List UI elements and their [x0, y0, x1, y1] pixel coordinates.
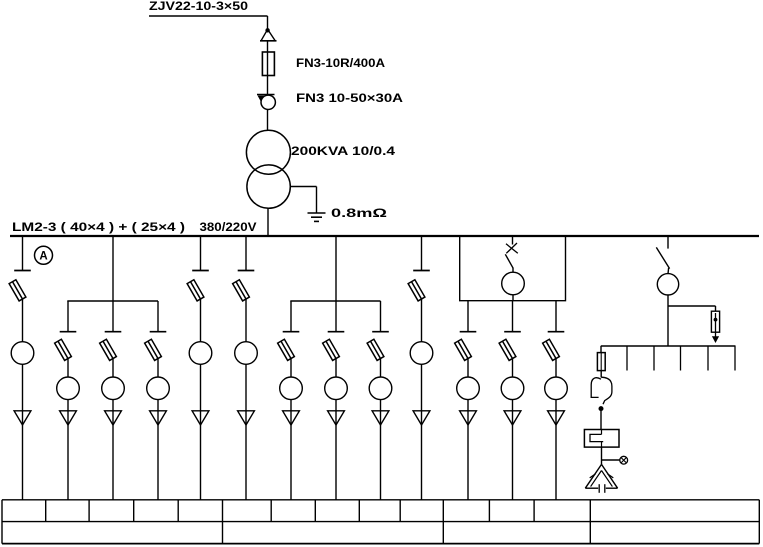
wire fuse to cutout [267, 76, 269, 95]
kWh meter feeder 5 [189, 342, 212, 365]
wire branch 12 meter to arrow [512, 400, 514, 411]
outgoing arrow circuit 13 [548, 411, 565, 425]
wire circuit 7 to panel table [290, 411, 292, 500]
wire feeder 6 fuse to meter [245, 299, 247, 342]
switch contact branch 13 [548, 331, 565, 333]
wire branch 4 fuse to meter [157, 359, 159, 378]
wire subgroup 1 feed from busbar [112, 237, 114, 301]
svg-text:FN3-10R/400A: FN3-10R/400A [296, 56, 385, 70]
wire branch 2 meter to arrow [67, 400, 69, 411]
switch contact feeder 6 [238, 270, 255, 272]
svg-text:LM2-3 ( 40×4 ) + ( 25×4 ): LM2-3 ( 40×4 ) + ( 25×4 ) [12, 220, 185, 234]
wire circuit 2 to panel table [67, 411, 69, 500]
fuse street-light circuit [597, 353, 605, 371]
wire feeder 1 stub from busbar [22, 237, 24, 271]
wire transformer to busbar [267, 208, 269, 235]
fuse-switch feeder 6 [233, 280, 250, 301]
antenna earth triangle [585, 464, 617, 492]
drop-out fuse cutout FN3 [257, 95, 275, 110]
wire feeder 6 stub from busbar [245, 237, 247, 271]
fuse-switch branch 12 [499, 339, 516, 360]
wire branch 7 stub from rail [290, 301, 292, 332]
comb outgoing tooth 2 [653, 346, 655, 371]
wire branch 13 fuse to meter [555, 359, 557, 378]
wire branch 11 meter to arrow [467, 400, 469, 411]
wire branch 3 fuse to meter [112, 359, 114, 378]
outgoing arrow circuit 5 [192, 411, 209, 425]
switch contact feeder 1 [14, 270, 31, 272]
switch contact feeder 5 [192, 270, 209, 272]
svg-text:A: A [39, 251, 47, 263]
wire branch 7 meter to arrow [290, 400, 292, 411]
comb outgoing tooth 4 [707, 346, 709, 371]
wire circuit 10 to panel table [421, 411, 423, 500]
fuse-switch branch 11 [455, 339, 472, 360]
switch contact branch 3 [105, 331, 122, 333]
wire feeder 6 meter to arrow [245, 364, 247, 411]
lamp symbol [620, 456, 628, 464]
table group divider 2 [442, 500, 444, 544]
circuit breaker QF blade [505, 254, 513, 268]
outgoing arrow circuit 9 [372, 411, 389, 425]
kWh meter branch 4 [147, 377, 170, 400]
kWh meter feeder 1 [11, 342, 34, 365]
wire blade to meter [667, 268, 670, 274]
wire branch 11 fuse to meter [467, 359, 469, 378]
switch contact branch 4 [150, 331, 167, 333]
wire arrester branch horizontal [668, 305, 716, 307]
panel box outline [460, 237, 566, 301]
kWh meter feeder 6 [235, 342, 258, 365]
wire incoming horizontal [149, 15, 268, 17]
kWh meter branch 9 [369, 377, 392, 400]
table cell divider 3 [133, 500, 135, 522]
transformer T1 primary winding [246, 130, 290, 174]
wire control box to antenna [601, 447, 603, 464]
wire branch 8 stub from rail [335, 301, 337, 332]
wire branch 8 meter to arrow [335, 400, 337, 411]
table cell divider 5 [270, 500, 272, 522]
panel table middle line [2, 521, 759, 523]
wire branch 12 fuse to meter [512, 359, 514, 378]
circuit breaker QF cross mark [506, 243, 518, 253]
wire circuit 4 to panel table [157, 411, 159, 500]
wire feeder 5 meter to arrow [200, 364, 202, 411]
wire subgroup 2 feed from busbar [335, 237, 337, 301]
wire branch 13 stub from rail [555, 301, 557, 332]
fuse-switch branch 3 [100, 339, 117, 360]
wire circuit 13 to panel table [555, 411, 557, 500]
switch contact branch 9 [372, 331, 389, 333]
meter right section [657, 274, 678, 295]
switch contact branch 12 [504, 331, 521, 333]
table group divider 3 [589, 500, 591, 544]
fuse-switch feeder 1 [9, 280, 26, 301]
wire circuit 11 to panel table [467, 411, 469, 500]
wire branch 2 stub from rail [67, 301, 69, 332]
wire branch 8 fuse to meter [335, 359, 337, 378]
wire circuit 12 to panel table [512, 411, 514, 500]
surge arrester FV [711, 311, 719, 343]
fuse-switch branch 9 [367, 339, 384, 360]
switch contact branch 2 [60, 331, 77, 333]
table cell divider 7 [358, 500, 360, 522]
table cell divider 10 [533, 500, 535, 522]
svg-text:200KVA 10/0.4: 200KVA 10/0.4 [291, 144, 395, 158]
outgoing arrow circuit 11 [460, 411, 477, 425]
outgoing arrow circuit 1 [14, 411, 31, 425]
wire subgroup 2 rail [290, 300, 380, 302]
wire branch 3 stub from rail [112, 301, 114, 332]
table cell divider 1 [45, 500, 47, 522]
table cell divider 2 [88, 500, 90, 522]
wire meter to comb bus [667, 295, 669, 346]
kWh meter branch 12 [501, 377, 524, 400]
ammeter A on feeder 1 [35, 246, 53, 264]
wire branch 9 stub from rail [380, 301, 382, 332]
junction dot [599, 406, 604, 411]
wire feeder 5 stub from busbar [200, 237, 202, 271]
wire incoming vertical drop [267, 16, 269, 30]
ground symbol [308, 213, 326, 221]
control box with socket [584, 430, 619, 448]
wire feeder 10 stub from busbar [421, 237, 423, 271]
table cell divider 6 [314, 500, 316, 522]
comb outgoing tooth 5 [734, 346, 736, 371]
disconnect switch right section [656, 247, 669, 268]
wire branch 11 stub from rail [467, 301, 469, 332]
wire feeder 10 fuse to meter [421, 299, 423, 342]
wire branch 12 stub from rail [512, 301, 514, 332]
outgoing arrow circuit 2 [60, 411, 77, 425]
fuse-switch branch 7 [278, 339, 295, 360]
wire feeder 1 meter to arrow [22, 364, 24, 411]
transformer T1 secondary winding [247, 165, 290, 208]
svg-text:0.8mΩ: 0.8mΩ [331, 206, 388, 220]
fuse FU1 FN3-10R/400A [262, 52, 274, 76]
kWh meter branch 13 [545, 377, 568, 400]
wire meter to box bottom [512, 295, 514, 301]
outgoing arrow circuit 7 [283, 411, 300, 425]
comb outgoing tooth 3 [680, 346, 682, 371]
kWh meter branch 11 [457, 377, 480, 400]
fuse-switch feeder 10 [408, 280, 425, 301]
kWh meter box group [502, 272, 525, 295]
wire lamp branch [602, 459, 620, 461]
wire hook to control box [600, 411, 602, 430]
cable termination arrow up [260, 28, 277, 41]
panel table left edge [1, 500, 3, 544]
wire right section stub from busbar [667, 237, 669, 249]
switch contact branch 7 [283, 331, 300, 333]
kWh meter feeder 10 [410, 342, 433, 365]
wire breaker stub from busbar [512, 237, 514, 245]
kWh meter branch 7 [280, 377, 303, 400]
wire circuit 5 to panel table [200, 411, 202, 500]
svg-text:380/220V: 380/220V [200, 220, 257, 234]
outgoing arrow circuit 4 [150, 411, 167, 425]
table cell divider 4 [177, 500, 179, 522]
svg-text:FN3 10-50×30A: FN3 10-50×30A [296, 91, 403, 105]
lamp bracket hook [591, 377, 612, 404]
wire comb to street-light fuse [600, 346, 602, 353]
wire circuit 1 to panel table [22, 411, 24, 500]
kWh meter branch 8 [325, 377, 348, 400]
wire branch 4 stub from rail [157, 301, 159, 332]
outgoing arrow circuit 8 [328, 411, 345, 425]
wire cutout to transformer [267, 110, 269, 132]
fuse-switch branch 13 [543, 339, 560, 360]
switch contact branch 8 [328, 331, 345, 333]
outgoing arrow circuit 10 [413, 411, 430, 425]
switch contact feeder 10 [413, 270, 430, 272]
fuse-switch branch 8 [323, 339, 340, 360]
outgoing arrow circuit 6 [238, 411, 255, 425]
wire circuit 9 to panel table [380, 411, 382, 500]
switch contact branch 11 [460, 331, 477, 333]
svg-text:ZJV22-10-3×50: ZJV22-10-3×50 [149, 0, 248, 13]
kWh meter branch 3 [102, 377, 125, 400]
panel table top line [2, 499, 759, 501]
outgoing arrow circuit 3 [105, 411, 122, 425]
wire feeder 1 fuse to meter [22, 299, 24, 342]
outgoing arrow circuit 12 [504, 411, 521, 425]
panel table bottom line [2, 543, 759, 545]
table cell divider 9 [488, 500, 490, 522]
wire feeder 10 meter to arrow [421, 364, 423, 411]
wire arrester branch vertical [715, 306, 717, 311]
wire fuse to hook [600, 371, 602, 378]
table cell divider 8 [399, 500, 401, 522]
wire branch 7 fuse to meter [290, 359, 292, 378]
fuse-switch feeder 5 [187, 280, 204, 301]
wire circuit 8 to panel table [335, 411, 337, 500]
wire circuit 6 to panel table [245, 411, 247, 500]
wire subgroup 1 rail [67, 300, 158, 302]
fuse-switch branch 4 [145, 339, 162, 360]
panel table right edge [758, 500, 760, 544]
wire feeder 5 fuse to meter [200, 299, 202, 342]
wire branch 9 fuse to meter [380, 359, 382, 378]
busbar 380/220V [10, 235, 759, 237]
kWh meter branch 2 [57, 377, 80, 400]
wire branch 2 fuse to meter [67, 359, 69, 378]
wire breaker to meter [512, 268, 514, 272]
distribution comb bus [601, 345, 736, 347]
comb outgoing tooth 1 [626, 346, 628, 371]
fuse-switch branch 2 [55, 339, 72, 360]
wire branch 13 meter to arrow [555, 400, 557, 411]
wire transformer neutral to ground [290, 187, 316, 213]
wire circuit 3 to panel table [112, 411, 114, 500]
wire branch 4 meter to arrow [157, 400, 159, 411]
wire branch 9 meter to arrow [380, 400, 382, 411]
wire branch 3 meter to arrow [112, 400, 114, 411]
table group divider 1 [222, 500, 224, 544]
wire arrow to fuse [267, 41, 269, 53]
